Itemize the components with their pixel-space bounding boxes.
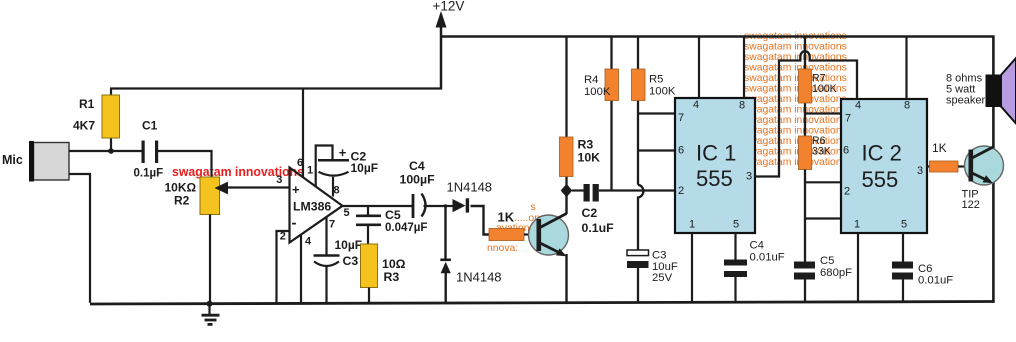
capacitor C4 100uF [400,159,447,218]
svg-text:0.01uF: 0.01uF [918,275,953,287]
wire D1 to 1K [471,206,490,235]
svg-text:3: 3 [917,165,923,177]
wire mid +12V rail (left) [110,87,442,89]
wire IC1 pin6 [638,149,675,151]
svg-text:swagatam innovations: swagatam innovations [744,115,847,126]
pin 3 label [276,174,282,186]
capacitor C2 10uF [318,145,378,197]
svg-text:10K: 10K [578,151,601,165]
svg-text:speaker: speaker [946,95,985,107]
svg-text:4: 4 [693,99,699,111]
svg-text:2: 2 [844,186,850,198]
svg-text:100µF: 100µF [400,173,436,187]
svg-text:C5: C5 [385,208,401,222]
svg-text:swagatam innovations: swagatam innovations [744,126,847,137]
svg-text:swagatam innovations: swagatam innovations [744,94,847,105]
svg-text:10Ω: 10Ω [382,257,406,271]
svg-text:33K: 33K [812,146,831,158]
svg-text:680pF: 680pF [820,267,852,279]
svg-text:555: 555 [696,166,733,191]
pin 2 wire to ground [277,231,290,303]
resistor R1 4K7 [73,89,120,153]
svg-text:25V: 25V [652,272,673,284]
svg-text:C2: C2 [582,206,598,220]
microphone Mic [2,141,69,182]
resistor R7 100K [799,37,837,138]
node collector junction diamond [561,184,573,197]
capacitor C5 680pF [794,255,852,303]
op-amp U1 LM386 [290,168,343,243]
svg-text:8: 8 [904,100,910,112]
svg-text:Mic: Mic [2,153,23,167]
capacitor C2 0.1uF coupling [572,184,614,235]
pin 2 label [280,231,286,243]
svg-text:swagatam innovations: swagatam innovations [744,42,847,53]
svg-text:C6: C6 [918,263,932,275]
svg-text:s: s [531,202,536,213]
svg-text:1K: 1K [498,210,515,225]
svg-text:2: 2 [678,185,684,197]
wire IC2 pin1 to ground [857,233,859,303]
resistor R3 10ohm [361,244,406,303]
transistor Q2 TIP122 [962,146,1004,211]
svg-text:IC 1: IC 1 [696,141,736,166]
capacitor C5 0.047uF [356,206,427,245]
svg-text:+: + [339,145,347,160]
pin 8 label [334,185,340,197]
wire Q1 emitter to ground [565,254,567,303]
capacitor C4 0.01uF [724,233,785,303]
svg-text:6: 6 [297,157,303,169]
wire Q1 collector to node [565,191,567,215]
svg-text:8: 8 [739,100,745,112]
svg-text:6: 6 [678,145,684,157]
svg-text:10µF: 10µF [335,238,363,252]
svg-text:C5: C5 [820,255,834,267]
wire IC1 pin8 to rail [743,37,745,99]
svg-text:C3: C3 [652,250,666,262]
svg-text:+12V: +12V [433,0,465,14]
wire C1 to R2 [158,151,212,178]
svg-text:swagatam innovations: swagatam innovations [744,147,847,158]
svg-text:0.1uF: 0.1uF [582,221,615,235]
potentiometer R2 10K [165,177,220,303]
diode D2 1N4148 shunt [440,206,501,303]
watermark red swagatam innovations [172,164,304,179]
capacitor C3 10uF 25V [627,250,678,303]
resistor R6 33K [799,135,831,262]
svg-text:C3: C3 [343,254,359,268]
svg-text:1: 1 [307,165,313,177]
svg-text:0.01uF: 0.01uF [750,252,785,264]
svg-text:R1: R1 [79,97,95,111]
watermark fragments near Q1 [487,202,545,254]
svg-text:3: 3 [276,174,282,186]
svg-text:0.047µF: 0.047µF [385,222,427,234]
svg-text:100K: 100K [812,83,837,95]
svg-text:7: 7 [329,219,335,231]
svg-text:7: 7 [678,112,684,124]
svg-text:-: - [292,215,297,232]
svg-text:10KΩ: 10KΩ [165,181,197,195]
svg-text:5: 5 [344,207,350,219]
wire IC2 pin2 [805,181,841,183]
svg-text:1: 1 [689,219,695,231]
wire IC1 pin4 to rail [698,37,700,99]
svg-text:122: 122 [962,199,980,211]
watermark column swagatam innovations [744,31,847,168]
svg-text:C4: C4 [409,159,425,173]
resistor R5 100K [632,37,676,185]
svg-text:555: 555 [862,167,899,192]
pin 4 wire to ground [301,235,312,303]
wire mic to R1/C1 node [69,150,143,152]
svg-text:IC 2: IC 2 [862,141,902,166]
svg-text:C4: C4 [750,240,764,252]
svg-text:swagatam innovations: swagatam innovations [172,164,304,179]
resistor R3 10K [560,37,601,186]
svg-text:swagatam innovations: swagatam innovations [744,136,847,147]
ground symbol [202,301,220,325]
wire C2 to IC1 pin2 [599,189,675,191]
wiper arrow R2 to pin3 [215,182,290,195]
svg-text:4K7: 4K7 [73,119,95,133]
svg-text:1K: 1K [932,141,947,155]
svg-text:R3: R3 [578,138,594,152]
wire IC2 pin8 to rail [905,37,907,100]
wire IC1 pin7 [638,112,675,114]
wire pin 5 output [343,205,414,207]
svg-text:4: 4 [855,100,861,112]
svg-text:0.1µF: 0.1µF [134,168,164,180]
+12V supply arrow [433,0,465,90]
svg-text:LM386: LM386 [293,200,331,214]
svg-text:5: 5 [901,219,907,231]
wire mic lower to ground [69,174,90,303]
svg-text:swagatam innovations: swagatam innovations [744,157,847,168]
wire bottom ground rail [90,302,995,305]
svg-text:2: 2 [280,231,286,243]
wire top +12V rail [440,35,995,38]
svg-text:10µF: 10µF [351,161,379,175]
resistor 1K TIP base [927,141,969,172]
svg-text:100K: 100K [649,86,676,98]
svg-text:nnova:: nnova: [487,243,518,254]
diode D1 1N4148 series [446,180,493,213]
capacitor C6 0.01uF [892,233,953,303]
wire IC1 pin1 to ground [691,233,693,303]
pin 6 wire to +12V [297,89,303,178]
svg-text:R3: R3 [384,270,400,284]
node junction mic/R1/C1 [108,148,114,154]
svg-text:4: 4 [305,236,312,248]
svg-text:swagatam innovations: swagatam innovations [744,63,847,74]
speaker 8 ohms 5 watt [946,58,1016,124]
IC U2 IC1 555 [675,98,755,233]
svg-text:7: 7 [845,113,851,125]
svg-text:3: 3 [746,171,752,183]
svg-text:+: + [292,182,300,197]
svg-text:6: 6 [843,145,849,157]
wire hop over pin2 line [638,185,643,251]
svg-text:5: 5 [733,219,739,231]
capacitor C1 0.1uF [134,119,164,180]
svg-text:1: 1 [854,219,860,231]
svg-text:R4: R4 [584,74,598,86]
pin 5 label [344,207,350,219]
pin 1 wire to C2 [307,146,333,187]
capacitor C3 10uF [314,238,363,303]
svg-text:C1: C1 [142,119,158,133]
svg-text:8: 8 [334,185,340,197]
svg-text:R2: R2 [174,194,190,208]
svg-text:R5: R5 [649,74,663,86]
IC U3 IC2 555 [841,99,927,233]
wire IC2 pin7 [805,112,841,114]
svg-text:1N4148: 1N4148 [456,270,502,285]
transistor Q1 [529,214,569,257]
wire IC2 pin1 to C5 node [805,217,841,219]
wire speaker/emitter vertical [992,37,995,303]
node junction diode branch [444,204,448,208]
wire IC1 pin3 to IC2 pin4 [755,51,857,176]
resistor R4 100K [584,37,619,191]
svg-text:1N4148: 1N4148 [447,180,493,195]
pin 7 wire to C3 [327,217,336,257]
resistor 1K base [489,210,537,241]
svg-text:100K: 100K [584,86,611,98]
